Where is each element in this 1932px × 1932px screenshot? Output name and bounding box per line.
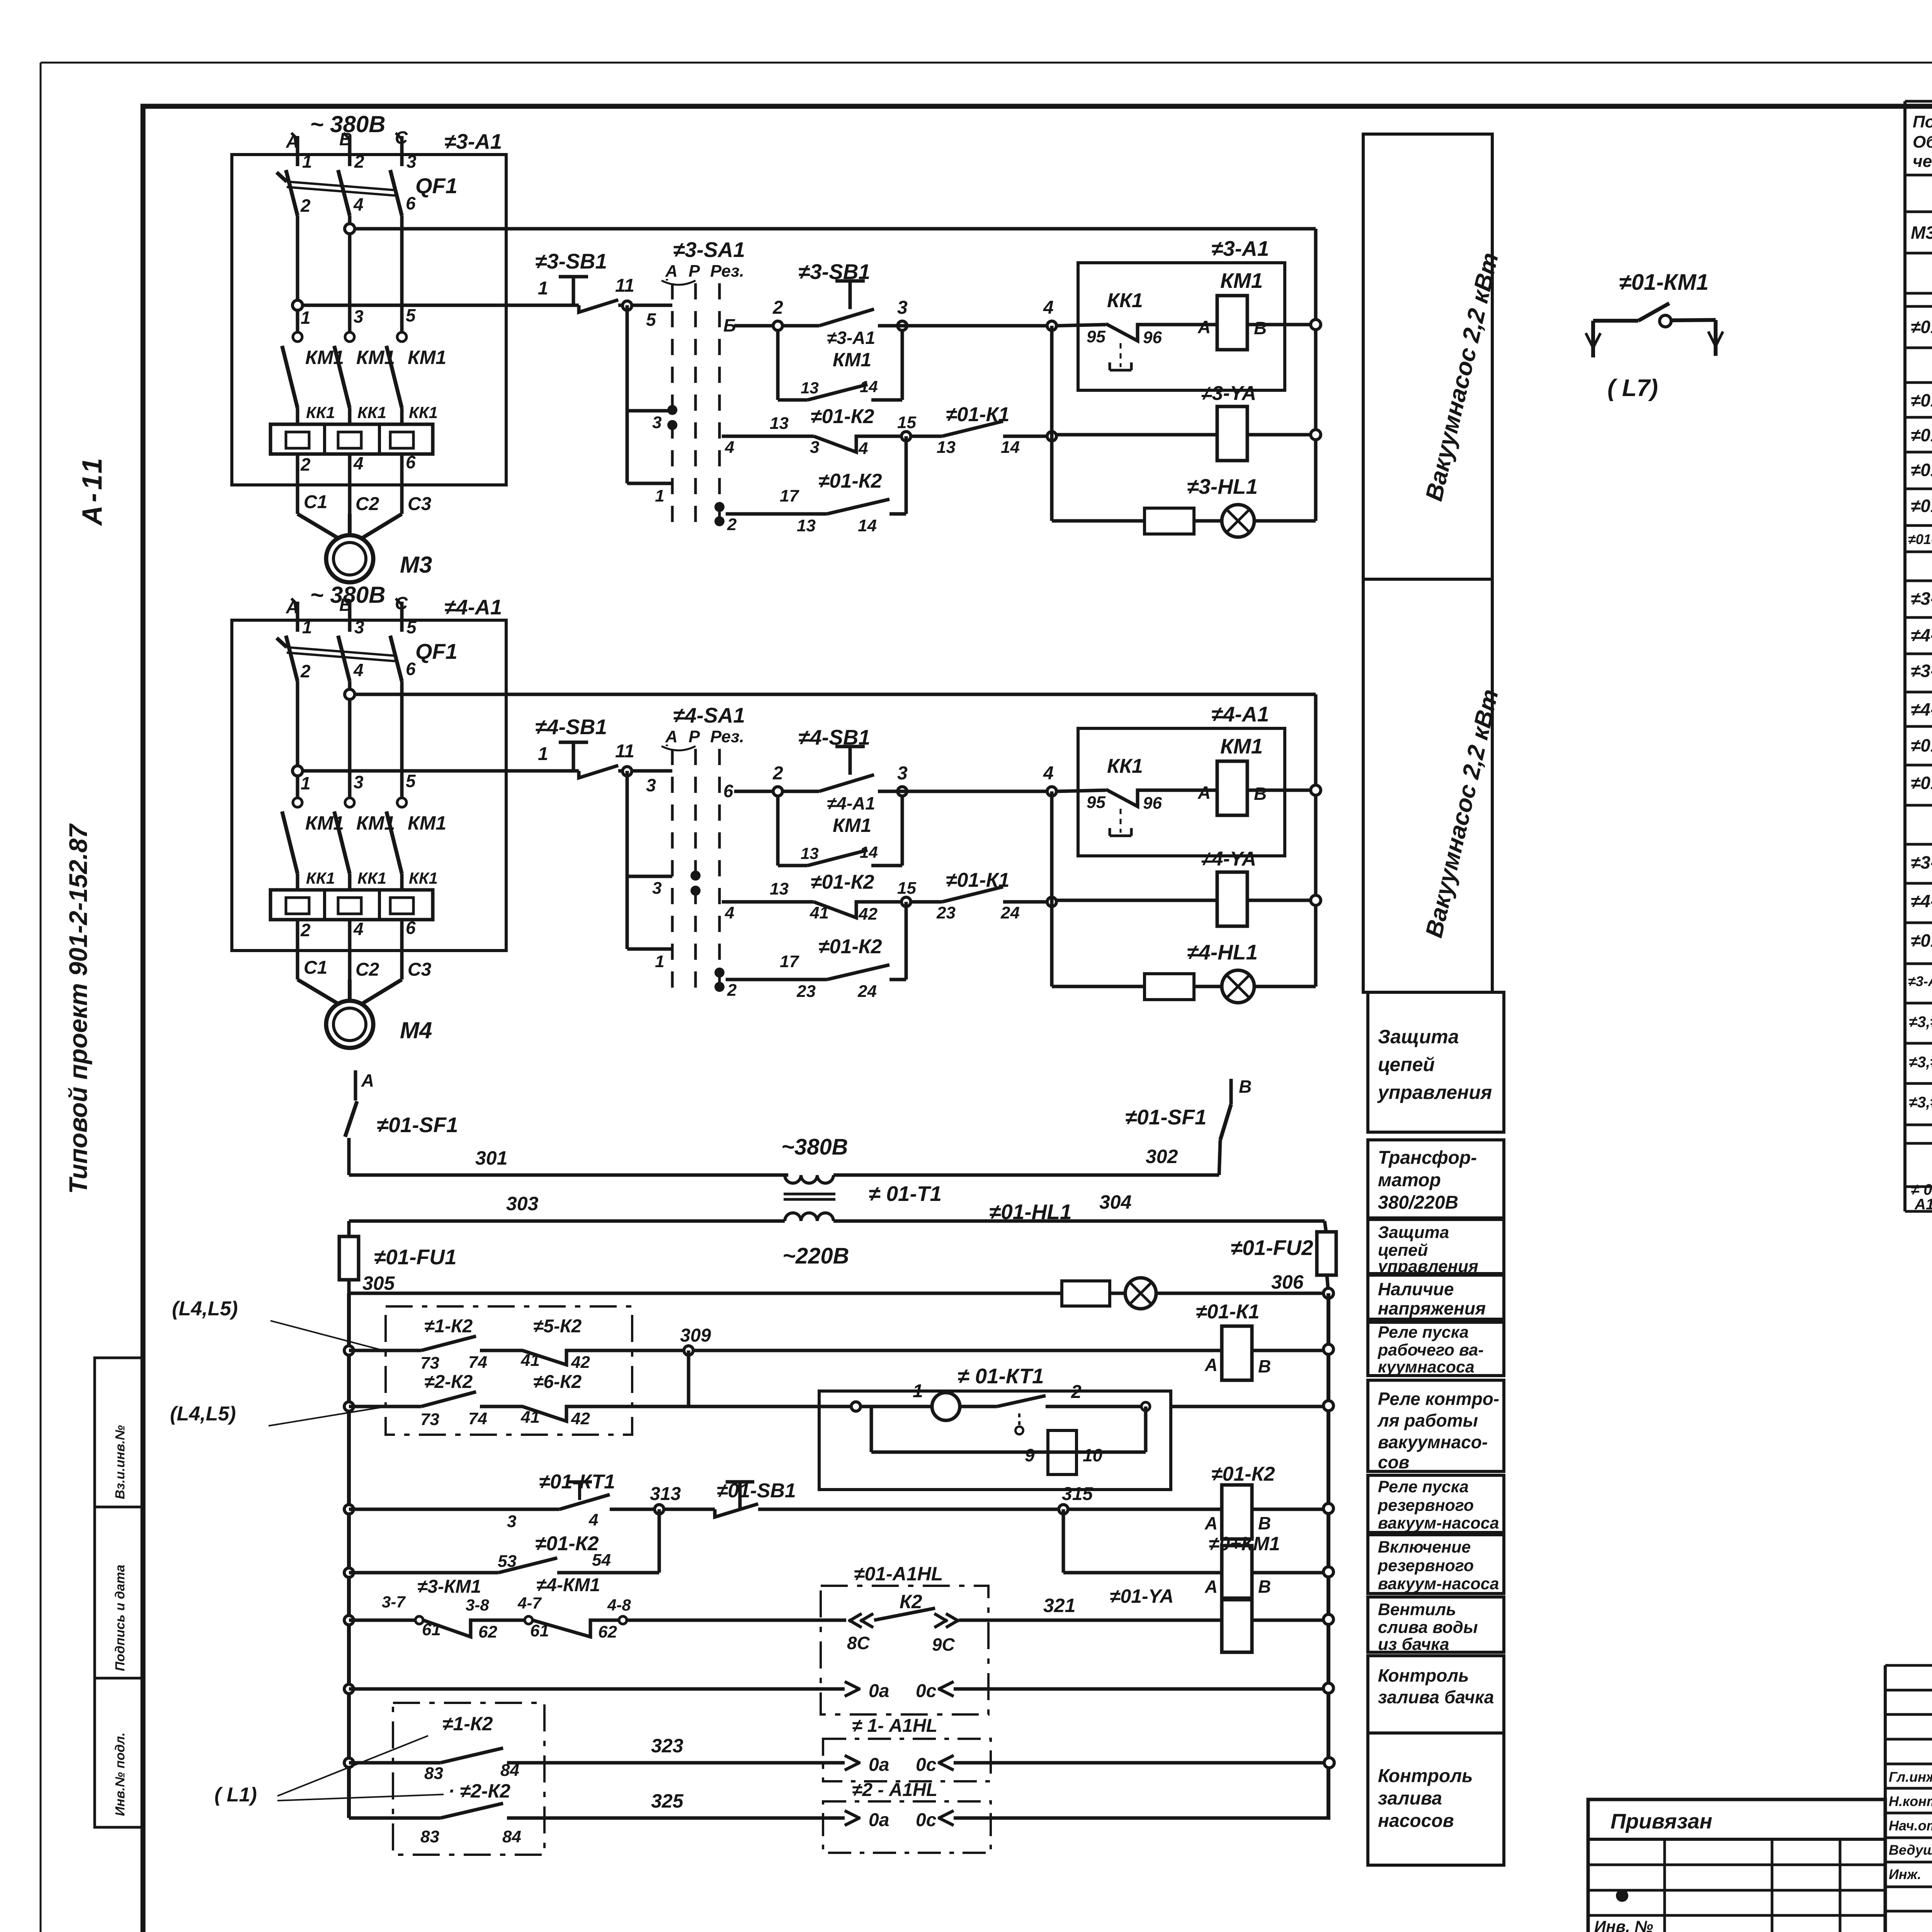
svg-text:325: 325 <box>651 1790 684 1812</box>
dash-dot box of contacts ≠1-К2 / ≠2-К2 <box>393 1703 544 1855</box>
rung 309: relay ≠01-K1 with remote contacts <box>344 1346 354 1355</box>
parts table grid <box>1905 100 1932 103</box>
svg-text:6: 6 <box>723 781 733 801</box>
svg-text:73: 73 <box>420 1410 439 1429</box>
rung: relay ≠01-KT1 with remote contacts 2-K2/6-K2 <box>344 1402 354 1411</box>
svg-text:вакуум-насоса: вакуум-насоса <box>1378 1575 1499 1593</box>
svg-text:В: В <box>1254 784 1267 804</box>
svg-text:23: 23 <box>796 982 816 1001</box>
junction on pole A <box>293 766 303 776</box>
svg-text:1: 1 <box>655 952 664 971</box>
svg-text:≠3-SA1: ≠3-SA1 <box>673 238 745 262</box>
svg-text:≠1-К2: ≠1-К2 <box>442 1713 493 1735</box>
svg-text:≠3-SA1: ≠3-SA1 <box>1911 588 1932 609</box>
selector row 3 stub <box>627 409 672 413</box>
right control bus <box>1327 1293 1330 1818</box>
svg-text:КК1: КК1 <box>1107 289 1143 312</box>
svg-text:А: А <box>1197 782 1211 803</box>
transformer ≠01-T1 <box>785 1175 801 1183</box>
motor М4 (double circle) <box>326 1001 373 1048</box>
svg-text:залива бачка: залива бачка <box>1378 1687 1494 1707</box>
level electrode contact 0a 0c (1) <box>845 1755 860 1763</box>
svg-text:~220В: ~220В <box>782 1243 849 1269</box>
selector row 1 stub <box>627 482 672 485</box>
device box ≠4-A1 (thermal contact + contactor coil) <box>1078 728 1285 856</box>
svg-text:61: 61 <box>530 1621 549 1640</box>
svg-text:цепей: цепей <box>1378 1054 1435 1075</box>
svg-text:матор: матор <box>1378 1170 1441 1190</box>
svg-text:Вентиль: Вентиль <box>1378 1600 1456 1619</box>
svg-text:2: 2 <box>727 981 737 1000</box>
function box Kontrol zaliva bachka <box>1368 1656 1504 1733</box>
fuse ≠01-FU1 <box>347 1221 351 1236</box>
svg-text:из бачка: из бачка <box>1378 1635 1449 1654</box>
svg-text:8С: 8С <box>847 1633 870 1653</box>
svg-text:(L4,L5): (L4,L5) <box>172 1298 238 1320</box>
phase lead 2 <box>348 136 352 166</box>
svg-text:~380В: ~380В <box>781 1134 848 1160</box>
selector contact dots lower <box>714 968 724 978</box>
svg-text:74: 74 <box>468 1353 487 1372</box>
svg-text:61: 61 <box>422 1620 441 1639</box>
function box Zashchita tsepey upravleniya 2 <box>1368 1219 1504 1274</box>
svg-text:КМ1: КМ1 <box>356 347 395 368</box>
svg-text:≠01-SB1: ≠01-SB1 <box>1911 735 1932 755</box>
wire 302 <box>833 1173 1219 1177</box>
svg-text:13: 13 <box>801 379 819 397</box>
svg-text:≠01-FU1,FU2: ≠01-FU1,FU2 <box>1908 531 1932 547</box>
left margin box Podpis i data <box>95 1507 143 1678</box>
svg-text:КМ1: КМ1 <box>833 349 871 371</box>
svg-text:≠3,≠4-КК1: ≠3,≠4-КК1 <box>1909 1094 1932 1111</box>
signal lamp rung of М4 <box>1052 985 1145 988</box>
pole wires below breaker <box>296 216 299 335</box>
svg-text:Н.контр: Н.контр <box>1889 1793 1932 1809</box>
svg-text:2: 2 <box>727 515 737 534</box>
svg-text:≠01-К2: ≠01-К2 <box>811 405 874 428</box>
svg-text:302: 302 <box>1146 1146 1178 1167</box>
svg-text:≠6-К2: ≠6-К2 <box>533 1372 582 1392</box>
motor leads C1 C2 C3 <box>296 454 299 514</box>
svg-text:Типовой проект 901-2-152.87: Типовой проект 901-2-152.87 <box>64 823 92 1194</box>
svg-text:≠01-КМ1: ≠01-КМ1 <box>1911 496 1932 516</box>
svg-text:С1: С1 <box>304 957 327 978</box>
svg-text:23: 23 <box>936 903 956 922</box>
time relay coil <box>1048 1430 1077 1475</box>
self-hold aux contact KM1 branch of М3 <box>776 330 780 400</box>
svg-text:≠4-SA1: ≠4-SA1 <box>1911 625 1932 645</box>
svg-text:КК1: КК1 <box>357 403 386 422</box>
svg-text:84: 84 <box>502 1827 521 1846</box>
svg-text:Включение: Включение <box>1378 1538 1471 1556</box>
left attachment box Privyazan <box>1588 1799 1885 1932</box>
svg-text:5: 5 <box>406 305 416 325</box>
svg-text:QF1: QF1 <box>415 639 457 663</box>
svg-text:≠01-YA: ≠01-YA <box>1110 1585 1173 1607</box>
control row 1 wire of М3 <box>298 304 579 307</box>
svg-text:≠01-К2: ≠01-К2 <box>818 935 882 958</box>
ink dot mark <box>1616 1889 1628 1902</box>
svg-text:≠01-SF1: ≠01-SF1 <box>1125 1105 1207 1129</box>
svg-text:4: 4 <box>353 194 364 214</box>
svg-text:( L1): ( L1) <box>214 1784 257 1806</box>
phase lead 3 <box>348 602 352 632</box>
junction 309 <box>684 1346 693 1355</box>
svg-text:13: 13 <box>770 414 789 433</box>
svg-text:А1HL: А1HL <box>1914 1196 1932 1213</box>
svg-text:≠01-К1: ≠01-К1 <box>1196 1301 1260 1323</box>
rung: KM1 aux contacts 61-62 + impulse contact K2 + valve 01-YA <box>344 1616 354 1625</box>
selector row 3 stub <box>627 875 672 878</box>
svg-text:М3, М4: М3, М4 <box>1911 223 1932 243</box>
svg-text:≠3,≠4-КМ1: ≠3,≠4-КМ1 <box>1909 1054 1932 1071</box>
wire 301 <box>349 1173 788 1177</box>
svg-text:≠0+КМ1: ≠0+КМ1 <box>1209 1533 1280 1554</box>
svg-text:КМ1: КМ1 <box>305 347 344 368</box>
selector vertical link wire <box>626 305 629 483</box>
svg-text:4: 4 <box>724 903 734 922</box>
svg-text:Защита: Защита <box>1378 1026 1459 1048</box>
svg-text:QF1: QF1 <box>415 173 457 198</box>
svg-text:4: 4 <box>353 453 364 473</box>
svg-text:309: 309 <box>680 1325 711 1346</box>
svg-text:2: 2 <box>300 196 311 216</box>
junction 2 <box>773 787 782 796</box>
svg-text:9: 9 <box>1025 1445 1035 1465</box>
svg-text:41: 41 <box>810 903 829 922</box>
svg-text:6: 6 <box>406 452 416 472</box>
svg-text:13: 13 <box>770 879 789 898</box>
svg-text:КМ1: КМ1 <box>408 347 446 368</box>
svg-text:303: 303 <box>506 1193 539 1214</box>
phase lead 3 <box>400 136 404 166</box>
svg-text:А: А <box>1197 317 1211 337</box>
resistor of lamp 01-HL1 <box>1062 1281 1110 1306</box>
svg-text:В: В <box>1258 1513 1271 1533</box>
right control bus of М4 <box>1314 694 1318 986</box>
svg-text:1: 1 <box>302 617 312 637</box>
svg-text:≠01-SF1: ≠01-SF1 <box>1911 317 1932 337</box>
svg-text:В: В <box>1239 1077 1252 1097</box>
dash-dot boundary box of remote contacts 1-K2/5-K2/2-K2/6-K2 <box>386 1306 632 1435</box>
svg-text:Рез.: Рез. <box>710 727 744 746</box>
lamp series resistor <box>1145 974 1194 1000</box>
svg-text:Инж.: Инж. <box>1889 1866 1921 1882</box>
svg-text:Подпись и дата: Подпись и дата <box>113 1565 128 1671</box>
svg-text:вакуум-насоса: вакуум-насоса <box>1378 1514 1499 1532</box>
svg-text:ля работы: ля работы <box>1377 1410 1478 1430</box>
svg-text:3: 3 <box>354 306 364 327</box>
left margin box Vz.i.inv.N <box>95 1358 143 1507</box>
function box Rele puska rezervnogo <box>1368 1475 1504 1532</box>
phase lead 1 <box>296 602 299 632</box>
svg-text:304: 304 <box>1099 1191 1131 1213</box>
svg-text:КМ1: КМ1 <box>356 812 395 834</box>
svg-text:≠4-SA1: ≠4-SA1 <box>673 703 745 727</box>
svg-text:Гл.инж.п: Гл.инж.п <box>1889 1769 1932 1785</box>
svg-text:управления: управления <box>1377 1257 1478 1276</box>
svg-text:3: 3 <box>897 763 908 784</box>
svg-text:· ≠2-К2: · ≠2-К2 <box>448 1780 510 1802</box>
junction rung2-left vertical <box>1047 432 1056 441</box>
svg-text:14: 14 <box>860 378 878 396</box>
level electrode contact 0a 0c <box>845 1682 860 1689</box>
svg-text:2: 2 <box>300 454 311 474</box>
junction 315 <box>1059 1505 1068 1514</box>
svg-text:54: 54 <box>592 1551 611 1570</box>
svg-text:3: 3 <box>897 298 908 318</box>
svg-text:≠3-А1: ≠3-А1 <box>444 129 502 153</box>
function box Ventil sliva vody iz bachka <box>1368 1597 1504 1652</box>
function box Vklyuchenie rezervnogo <box>1368 1535 1504 1594</box>
junction on right bus <box>1311 320 1321 330</box>
arrowhead right L7 <box>1708 332 1716 346</box>
svg-text:А: А <box>665 727 678 746</box>
svg-text:≠01-Т1: ≠01-Т1 <box>1911 773 1932 793</box>
svg-text:315: 315 <box>1062 1484 1093 1504</box>
svg-text:≠ 01-КТ1: ≠ 01-КТ1 <box>957 1364 1044 1388</box>
svg-text:3: 3 <box>406 151 417 172</box>
svg-text:301: 301 <box>475 1147 507 1169</box>
svg-text:380/220В: 380/220В <box>1378 1192 1458 1213</box>
svg-text:42: 42 <box>858 905 878 923</box>
svg-text:≠01-А1HL: ≠01-А1HL <box>854 1563 943 1585</box>
svg-text:4-8: 4-8 <box>607 1596 631 1614</box>
dash-dot box ≠01-А1HL (level regulator) <box>821 1586 988 1714</box>
svg-text:24: 24 <box>1000 903 1020 922</box>
svg-text:≠5-К2: ≠5-К2 <box>533 1316 582 1337</box>
svg-text:С2: С2 <box>355 959 379 980</box>
sheet outer trim border <box>41 62 1932 64</box>
svg-text:резервного: резервного <box>1378 1496 1474 1515</box>
svg-text:КМ1: КМ1 <box>305 812 344 834</box>
svg-text:≠ 1- А1HL: ≠ 1- А1HL <box>852 1716 937 1736</box>
svg-text:305: 305 <box>362 1272 395 1294</box>
svg-text:≠3-А1: ≠3-А1 <box>1211 236 1269 260</box>
enclosure box ≠4-A1 (motor starter М4) <box>232 620 506 951</box>
svg-text:≠4-А1: ≠4-А1 <box>1211 702 1269 726</box>
svg-text:3: 3 <box>652 879 662 898</box>
svg-text:Ведущ.: Ведущ. <box>1889 1842 1932 1858</box>
svg-text:вакуумнасо-: вакуумнасо- <box>1378 1432 1488 1452</box>
svg-text:насосов: насосов <box>1378 1811 1454 1831</box>
svg-text:рабочего ва-: рабочего ва- <box>1378 1341 1484 1359</box>
svg-text:17: 17 <box>780 486 799 505</box>
svg-text:резервного: резервного <box>1378 1556 1474 1575</box>
svg-text:КК1: КК1 <box>306 403 335 422</box>
svg-text:С3: С3 <box>408 494 432 514</box>
svg-text:1: 1 <box>301 308 311 328</box>
svg-text:напряжения: напряжения <box>1378 1298 1486 1318</box>
svg-text:62: 62 <box>598 1622 617 1641</box>
svg-text:А-11: А-11 <box>77 455 108 526</box>
link 313 down <box>658 1509 661 1573</box>
svg-text:3-8: 3-8 <box>466 1596 489 1614</box>
right control bus of М3 <box>1314 229 1318 521</box>
svg-text:≠3-А1,≠4-А1: ≠3-А1,≠4-А1 <box>1908 973 1932 989</box>
time relay motor circle <box>932 1393 960 1420</box>
svg-text:1: 1 <box>302 151 312 172</box>
svg-text:≠3-КМ1: ≠3-КМ1 <box>417 1577 481 1597</box>
svg-text:3-7: 3-7 <box>382 1593 406 1611</box>
svg-text:≠3-HL1: ≠3-HL1 <box>1187 474 1258 498</box>
svg-text:Вз.и.инв.№: Вз.и.инв.№ <box>113 1425 128 1499</box>
link 315 down <box>1062 1509 1065 1573</box>
circuit breaker QF1 of М3 <box>286 170 298 216</box>
svg-text:≠4-КМ1: ≠4-КМ1 <box>536 1575 600 1595</box>
svg-text:А: А <box>665 262 678 281</box>
wire 304 <box>833 1219 1325 1223</box>
lamp series resistor <box>1145 508 1194 534</box>
svg-text:Реле пуска: Реле пуска <box>1378 1323 1469 1342</box>
svg-text:сов: сов <box>1378 1452 1409 1472</box>
svg-text:≠4-А1: ≠4-А1 <box>827 793 875 813</box>
pole wires below breaker <box>296 681 299 801</box>
svg-text:≠01-К2: ≠01-К2 <box>535 1532 599 1555</box>
time relay inner loop <box>1144 1406 1148 1452</box>
svg-text:1: 1 <box>913 1381 923 1401</box>
svg-text:73: 73 <box>420 1354 439 1372</box>
svg-text:13: 13 <box>797 516 816 535</box>
control feed wire to right bus of М3 <box>354 227 1316 231</box>
svg-text:14: 14 <box>1001 438 1020 457</box>
svg-text:Поз.: Поз. <box>1913 112 1932 131</box>
svg-text:2: 2 <box>772 763 783 784</box>
svg-text:≠01-К2: ≠01-К2 <box>1211 1463 1275 1485</box>
svg-text:5: 5 <box>406 771 416 791</box>
svg-text:≠4-YA: ≠4-YA <box>1201 848 1256 870</box>
svg-text:Инв.№ подл.: Инв.№ подл. <box>113 1732 128 1816</box>
svg-text:≠3-SB1: ≠3-SB1 <box>1911 661 1932 681</box>
function box Rele kontrolya raboty vakuumnasosov <box>1368 1380 1504 1471</box>
svg-text:≠3-YA: ≠3-YA <box>1201 382 1256 405</box>
svg-text:≠4-А1: ≠4-А1 <box>444 595 502 619</box>
function box Vakuumnasos 2,2kVt (lower) <box>1363 579 1492 992</box>
svg-text:0а: 0а <box>869 1755 889 1775</box>
rung 2 (relay interlock contacts) of М3 <box>722 435 814 438</box>
svg-text:≠3-А1: ≠3-А1 <box>827 328 875 348</box>
svg-text:96: 96 <box>1143 328 1162 347</box>
svg-text:С3: С3 <box>408 959 432 980</box>
svg-text:А: А <box>1204 1577 1218 1597</box>
svg-text:42: 42 <box>571 1353 590 1372</box>
signal lamp rung of М3 <box>1052 519 1145 523</box>
svg-text:КК1: КК1 <box>409 869 438 887</box>
svg-text:залива: залива <box>1378 1788 1442 1809</box>
svg-text:Обозна-: Обозна- <box>1913 133 1932 151</box>
svg-text:Рез.: Рез. <box>710 262 744 281</box>
svg-text:Инв. №: Инв. № <box>1594 1917 1653 1932</box>
svg-text:КМ1: КМ1 <box>1220 734 1263 758</box>
control feed wire to right bus of М4 <box>354 693 1316 696</box>
svg-text:4: 4 <box>858 439 868 458</box>
svg-text:1: 1 <box>655 486 664 505</box>
junction 15 <box>901 432 911 441</box>
svg-text:83: 83 <box>424 1764 443 1783</box>
svg-text:≠01-SF1: ≠01-SF1 <box>377 1113 458 1137</box>
svg-text:95: 95 <box>1087 327 1105 346</box>
svg-text:≠3-HL1: ≠3-HL1 <box>1911 852 1932 872</box>
svg-text:4: 4 <box>724 438 734 457</box>
svg-text:4: 4 <box>1043 763 1054 784</box>
svg-text:9С: 9С <box>932 1634 955 1655</box>
self-hold aux contact KM1 branch of М4 <box>776 796 780 866</box>
svg-text:83: 83 <box>420 1827 439 1846</box>
svg-text:В: В <box>1258 1577 1271 1597</box>
svg-text:0с: 0с <box>916 1810 936 1830</box>
enclosure box ≠3-A1 (motor starter М3) <box>232 155 506 485</box>
svg-text:чение: чение <box>1913 152 1932 171</box>
svg-text:5: 5 <box>646 310 656 330</box>
arrowhead left L7 <box>1586 333 1593 348</box>
left control bus <box>347 1293 351 1818</box>
svg-text:≠2 - А1HL: ≠2 - А1HL <box>852 1780 937 1800</box>
svg-text:слива воды: слива воды <box>1378 1618 1478 1637</box>
phase lead 1 <box>296 136 299 166</box>
svg-text:≠01-КМ1: ≠01-КМ1 <box>1619 270 1709 295</box>
svg-text:3: 3 <box>810 438 819 457</box>
svg-text:Б: Б <box>723 315 736 335</box>
svg-text:М3: М3 <box>400 552 432 578</box>
level electrode contact 0a 0c (2) <box>845 1811 860 1818</box>
svg-text:306: 306 <box>1271 1271 1304 1293</box>
svg-text:15: 15 <box>897 413 916 432</box>
svg-text:41: 41 <box>520 1351 540 1370</box>
selector contact dots <box>690 871 701 881</box>
motor М3 (double circle) <box>326 535 373 582</box>
junction 11 <box>622 301 632 310</box>
svg-text:Нач.отд: Нач.отд <box>1889 1818 1932 1833</box>
svg-text:М4: М4 <box>400 1017 432 1043</box>
junction 15 <box>901 897 911 906</box>
control row 1 wire of М4 <box>298 769 579 773</box>
svg-text:КК1: КК1 <box>1107 755 1143 777</box>
svg-text:0а: 0а <box>869 1810 889 1830</box>
svg-text:96: 96 <box>1143 794 1162 813</box>
svg-text:≠4-SB1: ≠4-SB1 <box>1911 699 1932 719</box>
svg-text:3: 3 <box>354 617 364 637</box>
function box Rele puska rabochego vakuumnasosa <box>1368 1322 1504 1376</box>
function box Nalichie napryazheniya <box>1368 1275 1504 1319</box>
svg-text:53: 53 <box>498 1552 517 1571</box>
svg-text:А: А <box>1204 1355 1218 1375</box>
fuse ≠01-FU2 <box>1325 1221 1326 1232</box>
time relay switch blade <box>997 1396 1046 1406</box>
svg-text:62: 62 <box>478 1622 497 1641</box>
svg-text:323: 323 <box>651 1735 684 1757</box>
svg-text:Трансфор-: Трансфор- <box>1378 1148 1477 1168</box>
circuit breaker QF1 of М4 <box>286 636 298 681</box>
svg-text:А: А <box>1204 1513 1218 1533</box>
svg-text:2: 2 <box>354 151 364 172</box>
svg-text:13: 13 <box>937 438 956 457</box>
svg-text:А: А <box>361 1070 374 1090</box>
junction 313 <box>655 1505 664 1514</box>
junction on pole A <box>293 300 303 310</box>
junction 4 <box>1047 321 1056 330</box>
svg-text:24: 24 <box>857 982 877 1001</box>
phase lead 5 <box>400 602 404 632</box>
svg-text:0с: 0с <box>916 1755 936 1775</box>
title block signature grid <box>1885 1664 1932 1667</box>
svg-text:13: 13 <box>801 844 819 862</box>
svg-text:куумнасоса: куумнасоса <box>1378 1358 1475 1376</box>
control tap junction 4 on pole B of М3 <box>345 224 355 234</box>
svg-text:Контроль: Контроль <box>1378 1665 1469 1685</box>
selector contact dots lower <box>714 502 724 512</box>
svg-text:( L7): ( L7) <box>1607 375 1658 401</box>
svg-text:(L4,L5): (L4,L5) <box>170 1403 236 1425</box>
